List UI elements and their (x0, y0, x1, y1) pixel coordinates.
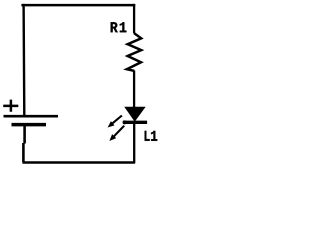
battery plus sign (3, 100, 18, 112)
resistor R1 (127, 33, 141, 71)
LED bar left end dot (123, 120, 127, 124)
LED light arrow upper (108, 116, 122, 128)
LED L1 (108, 107, 148, 141)
LED light arrow lower (109, 126, 124, 141)
wire right middle (133, 71, 135, 108)
label L1 (145, 131, 158, 141)
battery B1 (3, 100, 58, 162)
wire right lower (133, 124, 135, 163)
wire top (21, 4, 135, 7)
battery stem lower (23, 126, 24, 162)
wire left (22, 4, 25, 116)
LED triangle (anode) (125, 107, 145, 121)
battery bottom plate (negative, short thick) (12, 123, 47, 127)
wire right upper (133, 4, 135, 34)
LED bar (cathode) (123, 121, 147, 124)
label R1 (111, 22, 127, 32)
wire bottom (22, 161, 135, 164)
battery top plate (positive, long) (4, 115, 59, 118)
